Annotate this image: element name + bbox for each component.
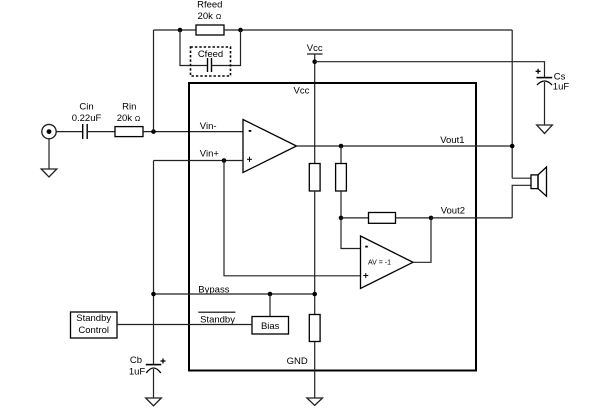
op-amp U1A bbox=[243, 120, 297, 173]
corner Vin+ riser down bbox=[153, 161, 155, 365]
wire jack to Cin bbox=[56, 131, 82, 133]
capacitor Cb (polarized) bbox=[146, 359, 166, 374]
power symbol Vcc bbox=[307, 54, 323, 83]
U1B plus input marker bbox=[363, 273, 368, 278]
label Cfeed bbox=[198, 49, 223, 60]
speaker LS1 bbox=[531, 167, 547, 196]
Cfeed dashed option box bbox=[191, 47, 231, 76]
standby control box bbox=[71, 312, 118, 338]
wire Vcc to Cs bbox=[315, 62, 545, 77]
label Cb bbox=[129, 355, 146, 377]
label AV = -1 bbox=[368, 260, 391, 267]
wire top feedback left segment bbox=[154, 29, 197, 31]
svg-text:Standby: Standby bbox=[200, 314, 235, 325]
wire Vin+ to U1A bbox=[154, 160, 244, 162]
wire feedback right riser bbox=[511, 30, 513, 178]
label Vout1 (pin) bbox=[440, 135, 464, 146]
wire feedback left riser bbox=[153, 30, 155, 132]
wire Vcc line into divider bbox=[314, 83, 316, 164]
node: Vcc distribution bbox=[312, 59, 317, 64]
label GND (pin) bbox=[287, 356, 308, 367]
node: input/feedback junction bbox=[151, 129, 156, 134]
label Standby (pin, active low) bbox=[198, 312, 235, 325]
node bypass divider bbox=[312, 292, 317, 297]
wire Vout1 node to R2 bbox=[340, 146, 342, 164]
capacitor Cs (polarized) bbox=[536, 69, 553, 85]
svg-text:1uF: 1uF bbox=[553, 82, 570, 93]
wire Vout2 to speaker bbox=[431, 217, 512, 219]
wire jack to ground bbox=[48, 139, 50, 169]
capacitor Cin bbox=[83, 124, 88, 139]
label Vout2 (pin) bbox=[441, 206, 465, 217]
label Cs bbox=[553, 72, 570, 93]
U1B minus input marker bbox=[365, 246, 368, 248]
svg-text:Bias: Bias bbox=[261, 321, 280, 332]
wire Cfeed right branch bbox=[212, 30, 241, 66]
label Bias bbox=[261, 321, 280, 332]
resistor Rin bbox=[115, 127, 143, 137]
label Vin- (pin) bbox=[200, 121, 217, 132]
wire node to U1B minus input bbox=[341, 218, 361, 249]
wire bypass rail bbox=[154, 293, 315, 295]
resistor R4 (bypass to GND) bbox=[309, 315, 320, 342]
wire R2 to inverting node bbox=[340, 191, 342, 218]
wire Cfeed left branch bbox=[180, 30, 207, 66]
IC boundary box bbox=[189, 83, 476, 371]
node: Rfeed left / Cfeed tap bbox=[178, 28, 183, 33]
wire R1 to bypass node bbox=[314, 191, 316, 315]
svg-text:AV = -1: AV = -1 bbox=[368, 260, 391, 267]
label Vcc (supply) bbox=[307, 43, 323, 54]
label Vcc (pin) bbox=[294, 86, 310, 97]
resistor R3 (U1B feedback) bbox=[369, 213, 396, 224]
wire Cs to ground bbox=[544, 82, 546, 125]
svg-text:20k: 20k bbox=[198, 11, 214, 22]
svg-text:Cb: Cb bbox=[130, 355, 142, 366]
wire speaker upper terminal bbox=[512, 177, 531, 179]
svg-text:GND: GND bbox=[287, 356, 308, 367]
label Rfeed bbox=[197, 0, 222, 22]
wire R4 to GND pin bbox=[314, 342, 316, 399]
ground (input jack) bbox=[41, 169, 57, 177]
svg-text:1uF: 1uF bbox=[129, 367, 146, 378]
svg-text:20k: 20k bbox=[117, 113, 133, 124]
label Bypass (pin) bbox=[198, 284, 229, 295]
U1A minus input marker bbox=[249, 130, 252, 132]
node bypass left bbox=[151, 292, 156, 297]
label Vin+ (pin) bbox=[200, 149, 220, 160]
node bypass bias tap bbox=[268, 292, 273, 297]
wire standby control to bias bbox=[117, 324, 252, 326]
wire Cin to Rin bbox=[87, 131, 115, 133]
node Vout2 bbox=[429, 216, 434, 221]
node: Rfeed right / Cfeed tap bbox=[238, 28, 243, 33]
node Vout1 / speaker bbox=[510, 144, 515, 149]
node Vout1 internal R tap bbox=[339, 144, 344, 149]
wire U1B output to Vout2 node bbox=[413, 218, 431, 262]
wire R3 to Vout2 node bbox=[396, 217, 432, 219]
svg-text:Cfeed: Cfeed bbox=[198, 49, 223, 60]
svg-text:Ω: Ω bbox=[216, 12, 222, 21]
svg-text:Vcc: Vcc bbox=[294, 86, 310, 97]
svg-text:Cin: Cin bbox=[79, 101, 93, 112]
svg-text:Rin: Rin bbox=[122, 101, 136, 112]
resistor R1 (Vcc to bypass) bbox=[309, 164, 320, 192]
ground (GND pin) bbox=[307, 398, 323, 405]
input jack J1 bbox=[42, 124, 56, 138]
bias block bbox=[252, 317, 289, 335]
svg-text:Rfeed: Rfeed bbox=[197, 0, 222, 11]
svg-text:Vin+: Vin+ bbox=[200, 149, 220, 160]
wire Rin to Vin- pin bbox=[143, 131, 243, 133]
ground (Cs) bbox=[537, 125, 553, 134]
op-amp U1B (AV = -1) bbox=[361, 236, 414, 289]
label Rin bbox=[117, 101, 141, 124]
wire bias drop bbox=[269, 294, 271, 317]
ground (Cb) bbox=[146, 398, 162, 406]
wire Cb to ground bbox=[153, 369, 155, 398]
svg-text:Control: Control bbox=[78, 325, 109, 336]
svg-text:0.22uF: 0.22uF bbox=[72, 113, 102, 124]
label Cin bbox=[72, 101, 102, 124]
resistor R2 (Vout1 to U1B input node) bbox=[336, 164, 347, 192]
capacitor Cfeed bbox=[208, 58, 212, 72]
node Vin+ to second amp bbox=[222, 158, 227, 163]
svg-text:Ω: Ω bbox=[135, 114, 141, 123]
label Standby Control bbox=[76, 313, 111, 336]
svg-text:Vin-: Vin- bbox=[200, 121, 217, 132]
wire U1A output (Vout1) bbox=[297, 145, 513, 147]
wire top feedback right segment bbox=[224, 29, 512, 31]
svg-text:Standby: Standby bbox=[76, 313, 111, 324]
wire Vin+ node to U1B plus input bbox=[224, 161, 361, 276]
resistor Rfeed bbox=[196, 25, 224, 35]
wire node to R3 feedback bbox=[341, 217, 369, 219]
svg-text:Vout2: Vout2 bbox=[441, 206, 465, 217]
node U1B inverting input bbox=[339, 216, 344, 221]
svg-text:Vcc: Vcc bbox=[307, 43, 323, 54]
wire speaker lower terminal bbox=[512, 185, 531, 218]
U1A plus input marker bbox=[247, 157, 252, 162]
svg-text:Vout1: Vout1 bbox=[440, 135, 464, 146]
